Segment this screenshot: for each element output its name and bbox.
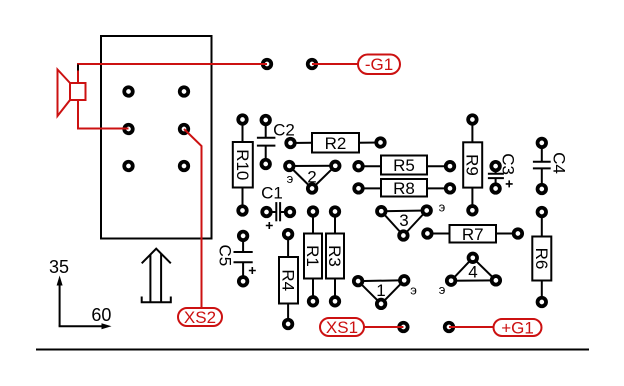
mounting arrow symbol bbox=[142, 249, 171, 303]
svg-text:R6: R6 bbox=[532, 248, 551, 270]
svg-text:э: э bbox=[439, 199, 446, 214]
pad node B bbox=[308, 60, 317, 69]
capacitor C2 bbox=[257, 116, 295, 169]
svg-text:XS2: XS2 bbox=[184, 308, 216, 327]
label -G1 bbox=[358, 55, 400, 75]
svg-text:35: 35 bbox=[49, 257, 69, 277]
pad +G1 node bbox=[445, 323, 454, 332]
capacitor C3 bbox=[488, 153, 518, 193]
svg-text:R9: R9 bbox=[463, 154, 482, 176]
transistor 4 bbox=[439, 254, 500, 298]
resistor R2 bbox=[286, 133, 385, 153]
resistor R6 bbox=[532, 208, 552, 307]
transistor 1 bbox=[354, 276, 417, 308]
svg-text:4: 4 bbox=[468, 262, 477, 281]
resistor R4 bbox=[279, 230, 299, 328]
svg-text:C4: C4 bbox=[549, 152, 568, 174]
resistor R5 bbox=[354, 156, 454, 176]
board pad 2 bbox=[180, 87, 189, 96]
baseline rule bbox=[36, 349, 589, 351]
pad XS1 node bbox=[399, 323, 408, 332]
pad node A bbox=[263, 60, 272, 69]
capacitor C5 bbox=[215, 232, 255, 286]
svg-text:60: 60 bbox=[91, 305, 111, 325]
svg-text:э: э bbox=[410, 283, 417, 298]
svg-text:R7: R7 bbox=[462, 225, 484, 244]
svg-text:2: 2 bbox=[307, 168, 316, 187]
resistor R1 bbox=[303, 207, 322, 305]
transistor 3 bbox=[377, 199, 446, 239]
resistor R10 bbox=[233, 115, 253, 215]
resistor R7 bbox=[423, 225, 522, 244]
dimension 60 horizontal arrow bbox=[59, 305, 112, 329]
svg-text:+G1: +G1 bbox=[501, 319, 534, 338]
svg-text:1: 1 bbox=[376, 281, 385, 300]
svg-text:C3: C3 bbox=[499, 153, 518, 175]
svg-text:C2: C2 bbox=[273, 121, 295, 140]
resistor R8 bbox=[354, 179, 454, 198]
label +G1 bbox=[494, 319, 542, 338]
wire pad to +G1 bbox=[449, 326, 494, 328]
wire board pad to XS2 bbox=[184, 129, 202, 308]
svg-text:R3: R3 bbox=[325, 245, 344, 267]
svg-text:R5: R5 bbox=[393, 156, 415, 175]
transistor 2 bbox=[285, 162, 340, 193]
dimension 35 vertical arrow bbox=[49, 257, 69, 326]
resistor R9 bbox=[463, 115, 483, 214]
svg-text:XS1: XS1 bbox=[326, 318, 358, 337]
svg-text:R1: R1 bbox=[303, 245, 322, 267]
svg-text:R10: R10 bbox=[233, 149, 252, 180]
board pad 5 bbox=[124, 162, 133, 171]
svg-text:3: 3 bbox=[399, 211, 408, 230]
wire speaker top to node A bbox=[78, 64, 267, 84]
board outline rectangle bbox=[101, 36, 212, 239]
board pad 1 bbox=[124, 87, 133, 96]
capacitor C4 bbox=[533, 139, 568, 194]
label XS1 bbox=[320, 318, 364, 337]
svg-text:C1: C1 bbox=[261, 184, 283, 203]
board pad 4 bbox=[180, 125, 189, 134]
wire node B to -G1 bbox=[312, 63, 358, 65]
svg-text:-G1: -G1 bbox=[365, 55, 393, 74]
svg-text:R4: R4 bbox=[279, 269, 298, 291]
board pad 3 bbox=[124, 125, 133, 134]
svg-text:C5: C5 bbox=[215, 245, 234, 267]
board pad 6 bbox=[180, 162, 189, 171]
label XS2 bbox=[178, 308, 222, 327]
capacitor C1 bbox=[261, 184, 294, 230]
wire XS1 to pad bbox=[364, 326, 403, 328]
wire speaker bottom to board pad bbox=[78, 99, 129, 129]
resistor R3 bbox=[325, 207, 344, 305]
svg-text:R2: R2 bbox=[325, 134, 347, 153]
speaker BA1 bbox=[58, 70, 86, 117]
svg-text:э: э bbox=[287, 171, 294, 186]
black tick at wire corner bbox=[77, 65, 79, 71]
svg-text:R8: R8 bbox=[393, 179, 415, 198]
svg-text:э: э bbox=[439, 282, 446, 297]
